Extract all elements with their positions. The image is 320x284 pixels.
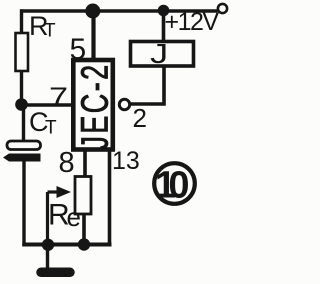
node +12V terminal circle (218, 4, 227, 13)
wire pin2 to relay (horizontal then up) (131, 67, 165, 104)
svg-text:T: T (45, 118, 57, 139)
wire ground stub (46, 245, 49, 269)
wire pin 7 horizontal (22, 103, 74, 106)
wire top rail (20, 9, 218, 13)
svg-text:8: 8 (59, 147, 75, 179)
wire relay top to rail (162, 11, 166, 42)
svg-text:13: 13 (112, 147, 140, 175)
wire pin 5 vertical (91, 11, 95, 60)
wire CT bottom down to ground rail (22, 161, 25, 246)
svg-text:+12V: +12V (165, 8, 220, 36)
junction dot pot bottom on bottom rail (78, 238, 90, 250)
svg-text:2: 2 (133, 103, 147, 133)
potentiometer Re body (75, 177, 91, 215)
junction dot wiper on bottom rail (42, 239, 54, 251)
junction dot at CT / pin7 (15, 98, 28, 111)
wire wiper down to rail (46, 192, 49, 245)
wire pot bottom to rail (82, 214, 86, 245)
svg-text:JEC-2: JEC-2 (73, 63, 116, 150)
ground symbol bar (41, 268, 70, 278)
potentiometer wiper arrow (48, 190, 60, 193)
junction dot at relay branch on top rail (158, 5, 170, 17)
junction dot at pin5 on top rail (85, 4, 100, 19)
figure number circle 10 (154, 163, 195, 204)
svg-text:T: T (44, 21, 56, 42)
svg-text:J: J (150, 38, 168, 69)
svg-text:0: 0 (168, 165, 189, 207)
svg-text:e: e (67, 202, 81, 232)
wire bottom rail (22, 243, 111, 247)
capacitor CT top plate (7, 141, 41, 150)
wire pin 8 to potentiometer (83, 149, 87, 178)
wire left vertical from top rail to RT (20, 9, 23, 35)
pin 2 open circle (119, 99, 129, 109)
wire RT bottom to junction (20, 71, 23, 104)
op-amp U1 JEC-2 box (73, 60, 113, 150)
relay J box (131, 42, 194, 67)
svg-text:7: 7 (49, 82, 68, 113)
resistor RT body (16, 33, 29, 71)
wire junction down to CT top plate (22, 104, 25, 141)
wire pin 13 down to rail (108, 149, 112, 244)
capacitor CT bottom plate (3, 154, 41, 162)
